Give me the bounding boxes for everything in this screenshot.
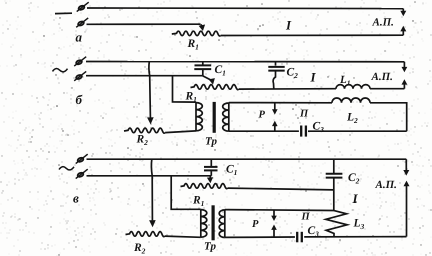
transformer Tr primary coil — [200, 209, 202, 237]
capacitor C1 — [195, 64, 212, 66]
feeder entry symbol bottom — [76, 169, 88, 178]
capacitor C2 lead — [275, 62, 277, 66]
wire C2 down through junction to L3 — [333, 178, 335, 210]
wire vertical junction to R2 tap — [151, 159, 152, 220]
wire second line to transformer primary top — [171, 176, 201, 210]
resistor R2 — [126, 232, 165, 237]
wire second line — [87, 23, 201, 25]
svg-text:Р: Р — [259, 110, 266, 121]
wire L1 to up arrow — [370, 88, 404, 90]
inductor L3 (vertical zigzag) — [326, 211, 347, 237]
wire box bottom edge right part — [304, 236, 406, 238]
dash mark — [55, 12, 72, 14]
transformer core — [213, 102, 216, 133]
wire right edge up arrow — [406, 186, 408, 237]
capacitor C2 — [268, 66, 284, 68]
capacitor C1 — [204, 166, 218, 168]
resistor R1 — [181, 184, 228, 189]
wire R2 to transformer primary bottom — [165, 131, 196, 133]
svg-text:б: б — [76, 92, 83, 107]
transformer Tr secondary coil — [228, 103, 230, 132]
AC source tilde — [53, 69, 68, 72]
capacitor C3 — [305, 126, 307, 137]
wire top antenna line — [87, 158, 407, 160]
feeder entry symbol top — [74, 57, 86, 66]
wire R1 out to L1 — [239, 88, 336, 90]
wire C2 kinked lead down — [273, 71, 275, 88]
svg-text:А.П.: А.П. — [372, 17, 394, 29]
svg-text:А.П.: А.П. — [375, 179, 397, 191]
feeder entry symbol bottom — [74, 71, 86, 80]
wire feeder box top edge — [225, 209, 334, 212]
wire feeder box top edge — [229, 102, 332, 104]
wire second line to transformer primary top — [173, 76, 197, 102]
wiper arrow onto R1 — [203, 76, 212, 80]
AC source tilde — [59, 167, 74, 170]
capacitor C1 lead — [210, 159, 212, 166]
wire second line — [86, 75, 203, 77]
wire second line — [87, 175, 212, 177]
feeder entry symbol top — [77, 2, 89, 11]
svg-text:Р: Р — [252, 219, 259, 230]
inductor L1 — [336, 85, 370, 89]
capacitor C3 — [301, 232, 303, 243]
wire R2 to transformer primary bottom — [165, 236, 201, 237]
feeder entry symbol bottom — [76, 18, 88, 27]
resistor R2 — [124, 128, 165, 133]
svg-text:П: П — [299, 109, 309, 120]
wire right drop arrow — [405, 159, 407, 170]
inductor L2 — [332, 98, 370, 103]
svg-text:А.П.: А.П. — [371, 71, 393, 83]
wire box bottom edge left part — [229, 130, 299, 132]
capacitor C2 lead — [333, 159, 335, 173]
wire up arrow — [403, 84, 405, 89]
wire from R1 to right — [221, 34, 404, 36]
wiper arrow onto R1 — [209, 176, 211, 178]
wire top antenna line — [87, 7, 403, 10]
feeder entry symbol top — [76, 154, 88, 163]
transformer Tr primary coil — [195, 102, 197, 131]
wire top antenna line — [86, 61, 404, 63]
svg-text:I: I — [310, 70, 317, 85]
resistor R1 — [191, 85, 239, 90]
svg-text:I: I — [352, 191, 359, 206]
svg-text:в: в — [73, 191, 79, 206]
wire box top right + right edge — [370, 103, 407, 131]
wire right drop arrow — [403, 62, 405, 67]
capacitor C1 lead — [202, 62, 204, 65]
transformer core — [212, 205, 215, 240]
svg-text:I: I — [285, 18, 292, 33]
svg-text:Тр: Тр — [204, 241, 216, 253]
wire up arrow from counterpoise line — [402, 31, 404, 36]
wire right drop to A.P. — [402, 9, 404, 12]
wire box bottom edge left part — [225, 236, 295, 238]
svg-text:а: а — [76, 30, 83, 45]
svg-text:Тр: Тр — [205, 136, 217, 148]
wire vertical junction to R2 tap — [149, 62, 151, 118]
wire box bottom edge right part — [308, 130, 407, 132]
svg-text:П: П — [301, 212, 311, 223]
resistor R1 — [172, 31, 221, 36]
wire R1 out to C2 junction — [228, 188, 334, 190]
transformer Tr secondary coil — [224, 210, 226, 238]
capacitor C2 — [326, 173, 343, 175]
